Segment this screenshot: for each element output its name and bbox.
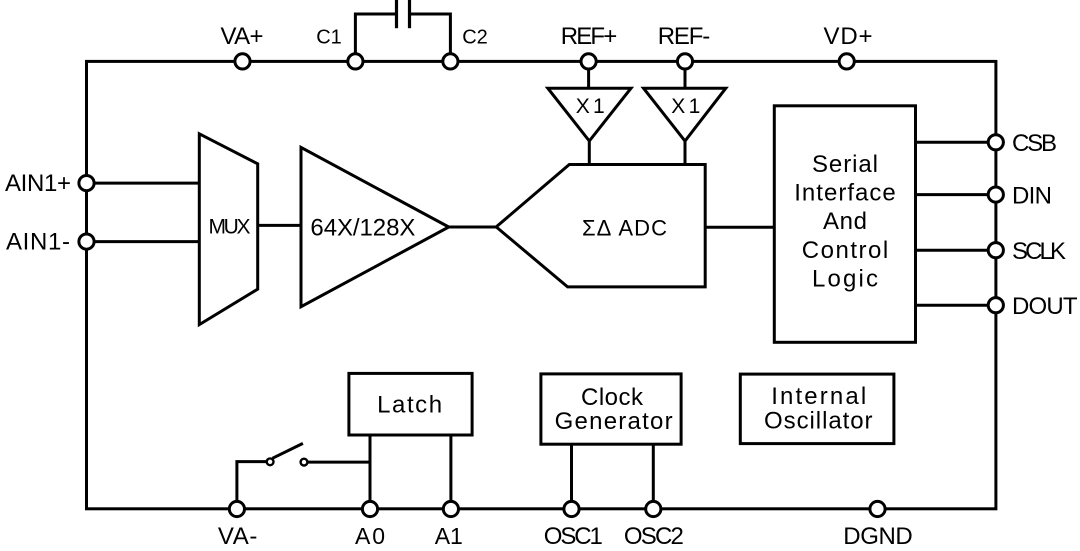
buffer U2 (X1)	[644, 88, 726, 141]
pin DGND	[870, 501, 885, 516]
wire clock generator to OSC2	[652, 444, 655, 509]
svg-text:Generator: Generator	[555, 408, 673, 435]
svg-text:C2: C2	[462, 27, 488, 49]
wire AIN1- to MUX	[87, 240, 200, 243]
amplifier A1 (64X/128X)	[301, 147, 449, 306]
wire amplifier to ADC	[449, 226, 496, 229]
pin OSC2	[646, 501, 661, 516]
latch block	[349, 373, 472, 435]
pin A0	[362, 501, 377, 516]
wire buffer U2 to ADC	[684, 141, 687, 165]
multiplexer MUX	[199, 134, 257, 325]
svg-text:Internal: Internal	[771, 383, 866, 410]
pin C2	[443, 54, 458, 69]
svg-text:Oscillator: Oscillator	[764, 407, 873, 434]
clock generator block	[541, 374, 681, 444]
svg-text:Control: Control	[802, 237, 889, 264]
svg-text:Interface: Interface	[794, 180, 896, 207]
pin SCLK	[988, 243, 1003, 258]
svg-text:REF+: REF+	[561, 23, 618, 50]
wire MUX to amplifier	[258, 224, 301, 227]
capacitor C between C1 and C2	[355, 0, 450, 54]
wire serial interface to DOUT	[916, 304, 996, 307]
pin REF-	[677, 54, 692, 69]
pin VD+	[839, 54, 854, 69]
svg-text:VD+: VD+	[824, 23, 873, 50]
svg-text:X1: X1	[671, 95, 700, 118]
wire clock generator to OSC1	[570, 444, 573, 509]
svg-text:Serial: Serial	[812, 151, 878, 178]
svg-text:SCLK: SCLK	[1012, 238, 1066, 265]
svg-text:A1: A1	[435, 523, 463, 549]
pin C1	[348, 54, 363, 69]
svg-text:AIN1-: AIN1-	[6, 229, 70, 256]
internal oscillator block	[740, 374, 894, 444]
svg-text:64X/128X: 64X/128X	[310, 215, 415, 242]
svg-text:CSB: CSB	[1012, 130, 1057, 157]
wire ADC to serial interface	[705, 226, 774, 229]
wire buffer U1 to ADC	[588, 141, 591, 165]
switch S1 wire from VA-	[237, 462, 267, 500]
svg-text:VA+: VA+	[221, 23, 264, 50]
pin DOUT	[988, 298, 1003, 313]
buffer U1 (X1)	[548, 88, 631, 141]
wire AIN1+ to MUX	[87, 182, 200, 185]
svg-text:OSC2: OSC2	[624, 523, 684, 550]
switch S1 contact pole	[267, 458, 274, 465]
svg-text:ΣΔ ADC: ΣΔ ADC	[582, 216, 667, 241]
ADC block (sigma-delta)	[496, 165, 705, 287]
wire serial interface to DIN	[916, 193, 996, 196]
chip boundary outer box	[87, 61, 996, 508]
svg-text:AIN1+: AIN1+	[5, 170, 71, 197]
pin AIN1-	[79, 234, 94, 249]
pin DIN	[988, 187, 1003, 202]
svg-text:VA-: VA-	[218, 523, 258, 550]
svg-text:DGND: DGND	[843, 523, 913, 550]
pin OSC1	[564, 501, 579, 516]
pin REF+	[581, 54, 596, 69]
svg-text:MUX: MUX	[209, 216, 251, 239]
pin VA+	[235, 54, 250, 69]
svg-text:Logic: Logic	[812, 265, 878, 292]
serial interface and control logic block	[774, 106, 915, 342]
wire latch to A0	[369, 435, 372, 509]
pin VA-	[229, 501, 244, 516]
svg-text:And: And	[823, 208, 867, 235]
svg-text:DOUT: DOUT	[1012, 293, 1078, 320]
wire REF- pin to buffer U2	[684, 69, 687, 88]
wire serial interface to CSB	[916, 141, 996, 144]
switch S1 contact throw	[301, 459, 308, 466]
svg-text:C1: C1	[316, 27, 342, 49]
svg-text:A0: A0	[355, 523, 385, 549]
wire latch to A1	[449, 435, 452, 509]
switch S1 blade	[272, 443, 303, 458]
svg-text:REF-: REF-	[658, 23, 711, 50]
wire switch to latch/A0 net	[308, 461, 370, 464]
wire REF+ pin to buffer U1	[587, 69, 590, 88]
wire serial interface to SCLK	[916, 249, 996, 252]
svg-text:OSC1: OSC1	[544, 523, 603, 550]
pin AIN1+	[79, 176, 94, 191]
pin A1	[443, 501, 458, 516]
svg-text:Latch: Latch	[377, 391, 442, 418]
svg-text:DIN: DIN	[1012, 182, 1052, 209]
pin CSB	[988, 135, 1003, 150]
svg-text:X1: X1	[576, 95, 605, 118]
